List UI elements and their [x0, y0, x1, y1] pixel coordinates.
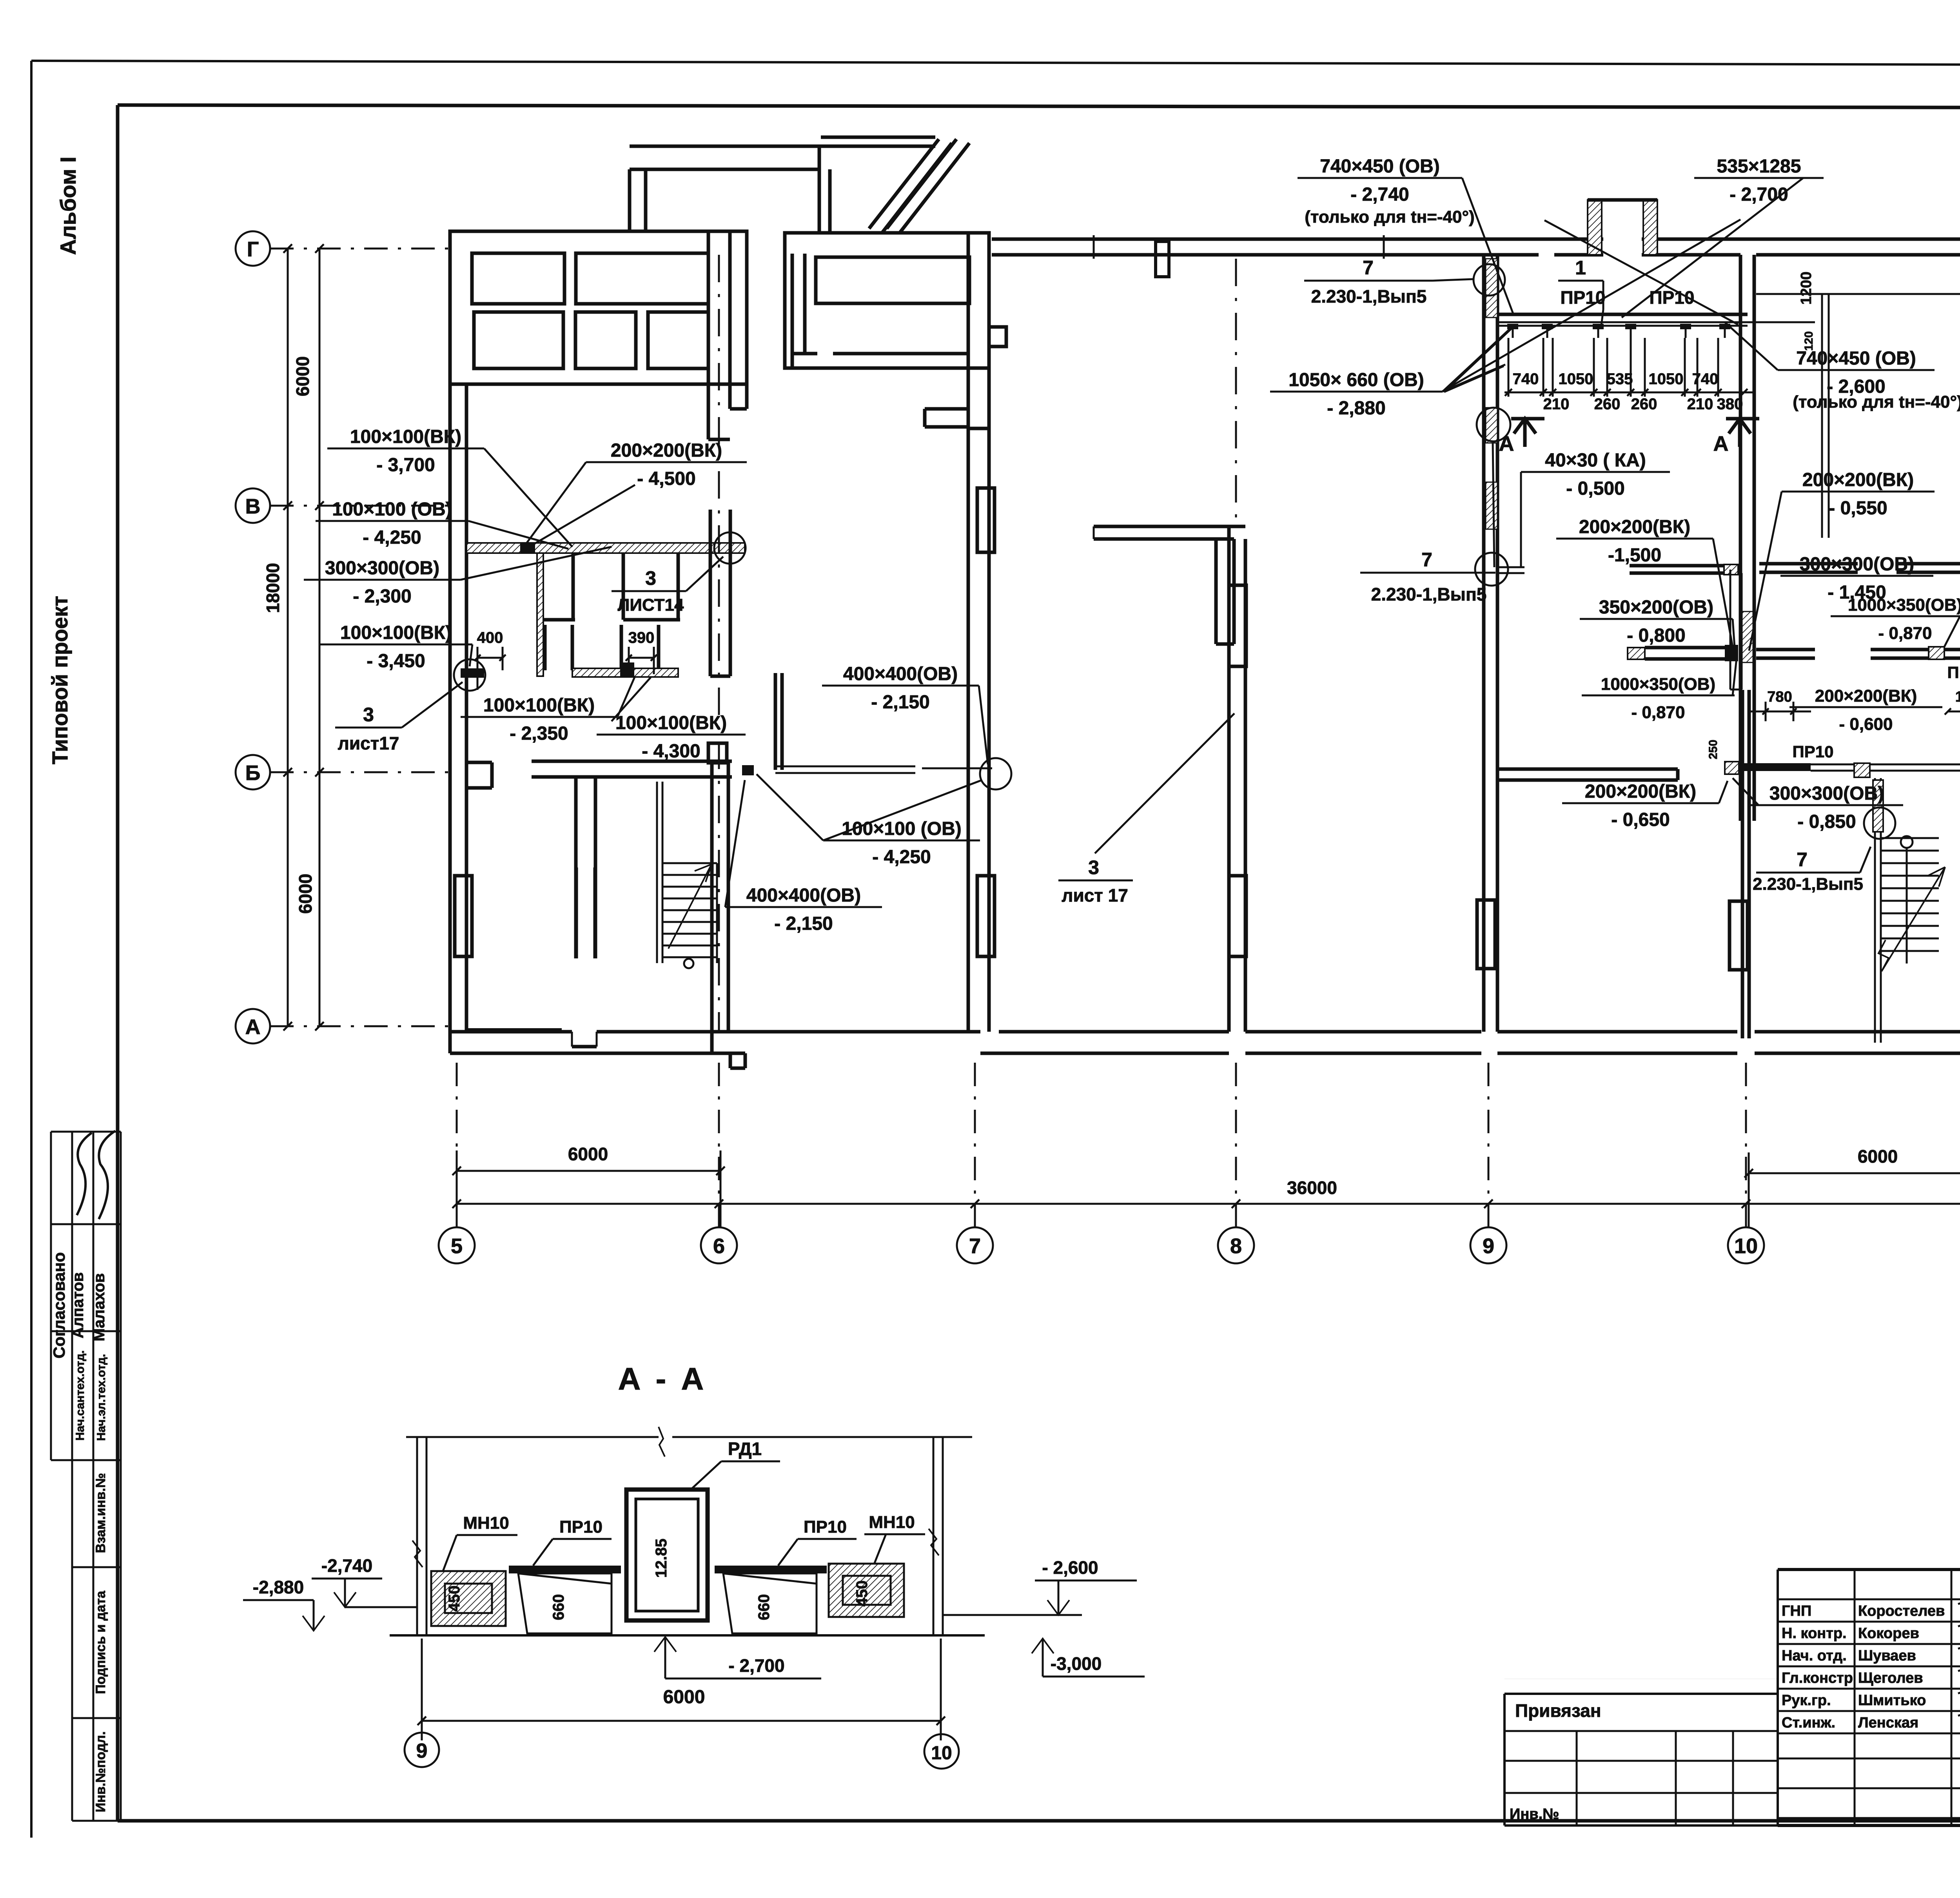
MN10 left box — [431, 1571, 506, 1626]
sheet frame — [31, 61, 1960, 66]
svg-text:лист17: лист17 — [338, 733, 399, 753]
section floor line — [390, 1634, 985, 1637]
RD1 box — [626, 1490, 708, 1620]
section axis circles — [405, 1733, 439, 1767]
svg-text:740: 740 — [1513, 370, 1539, 388]
svg-text:- 2,300: - 2,300 — [353, 586, 411, 607]
svg-text:200×200(ВК): 200×200(ВК) — [1802, 470, 1914, 490]
svg-text:1: 1 — [1575, 257, 1586, 279]
right chamber extension — [1821, 294, 1823, 538]
svg-text:200×200(ВК): 200×200(ВК) — [1579, 517, 1690, 537]
svg-text:- 3,700: - 3,700 — [376, 455, 435, 475]
svg-text:400: 400 — [477, 629, 503, 646]
svg-text:210: 210 — [1687, 396, 1713, 413]
svg-text:300×300(ОВ): 300×300(ОВ) — [325, 558, 439, 579]
svg-text:Шмитько: Шмитько — [1858, 1692, 1926, 1709]
dim 390 — [629, 657, 654, 659]
svg-text:300×300(ОВ): 300×300(ОВ) — [1769, 783, 1884, 804]
duct/chimney above block — [628, 169, 632, 231]
axis8 wall lower — [1227, 526, 1231, 1032]
svg-text:100×100(ВК): 100×100(ВК) — [483, 695, 595, 716]
svg-text:300×300(ОВ): 300×300(ОВ) — [1800, 554, 1914, 575]
svg-text:Б: Б — [245, 761, 261, 785]
svg-text:(только для tн=-40°): (только для tн=-40°) — [1305, 207, 1475, 227]
svg-text:1050: 1050 — [1559, 370, 1593, 388]
svg-text:2.230-1,Вып5: 2.230-1,Вып5 — [1311, 286, 1427, 307]
svg-text:Согласовано: Согласовано — [50, 1252, 68, 1358]
svg-text:200×200(ВК): 200×200(ВК) — [1815, 686, 1917, 706]
top wall right part — [992, 238, 1960, 241]
svg-text:ПР10: ПР10 — [1793, 742, 1834, 761]
svg-text:Ст.инж.: Ст.инж. — [1782, 1715, 1835, 1731]
hatched wall below B axis (left section) — [466, 543, 745, 553]
svg-text:А: А — [245, 1015, 261, 1039]
svg-text:535×1285: 535×1285 — [1717, 156, 1801, 177]
svg-text:6000: 6000 — [292, 356, 313, 396]
svg-text:- 4,300: - 4,300 — [642, 741, 700, 762]
approval stamp table — [51, 1131, 121, 1133]
vent chimney on top wall — [1603, 237, 1642, 257]
bottom right stairs — [1874, 778, 1876, 1043]
window on axis10 wall — [1730, 901, 1748, 970]
leader circles on axis9 wall — [1474, 264, 1505, 296]
svg-text:200×200(ВК): 200×200(ВК) — [611, 440, 722, 461]
svg-text:260: 260 — [1594, 396, 1621, 413]
svg-text:8: 8 — [1230, 1234, 1242, 1258]
axis10 wall lower part — [1741, 690, 1744, 1038]
svg-text:740×450 (ОВ): 740×450 (ОВ) — [1320, 156, 1440, 177]
svg-text:10: 10 — [931, 1743, 952, 1764]
vent chamber walls (axis 9) — [1482, 255, 1486, 1032]
svg-text:6000: 6000 — [568, 1144, 608, 1164]
exterior bottom wall (axis A) — [450, 1030, 572, 1034]
svg-text:6000: 6000 — [295, 874, 316, 914]
svg-text:10: 10 — [1734, 1234, 1758, 1258]
svg-text:6000: 6000 — [663, 1687, 705, 1707]
exterior wall left (axis 5) — [448, 231, 452, 1053]
svg-text:- 2,700: - 2,700 — [728, 1655, 784, 1676]
svg-text:Шуваев: Шуваев — [1858, 1648, 1916, 1664]
partition wall down from Б wall — [575, 867, 578, 958]
block cells row 2 — [474, 312, 563, 368]
svg-text:Кокорев: Кокорев — [1858, 1625, 1919, 1642]
L wall right of stair room — [774, 673, 777, 770]
svg-text:3: 3 — [645, 567, 656, 589]
svg-text:390: 390 — [628, 629, 655, 646]
svg-text:1200: 1200 — [1798, 272, 1815, 305]
svg-text:3: 3 — [1088, 856, 1099, 878]
svg-text:9: 9 — [1483, 1234, 1494, 1258]
svg-text:Привязан: Привязан — [1515, 1700, 1601, 1721]
svg-text:- 3,450: - 3,450 — [367, 651, 425, 671]
svg-text:260: 260 — [1631, 396, 1657, 413]
dim 400 — [477, 657, 503, 659]
svg-text:ПР10: ПР10 — [1561, 287, 1606, 308]
svg-text:1000×350(ОВ): 1000×350(ОВ) — [1848, 595, 1960, 615]
svg-text:7: 7 — [1797, 849, 1808, 871]
svg-text:Рук.гр.: Рук.гр. — [1782, 1692, 1831, 1709]
inner drawing frame — [118, 105, 1960, 108]
svg-text:В: В — [245, 495, 261, 518]
window on axis9 wall — [1477, 900, 1495, 969]
axis letter circles — [236, 231, 270, 266]
svg-text:Гл.констр: Гл.констр — [1782, 1670, 1853, 1686]
wall y1660 with PR10 lintels — [1628, 648, 1645, 659]
svg-text:- 4,250: - 4,250 — [872, 847, 931, 867]
svg-text:450: 450 — [446, 1586, 463, 1612]
svg-text:- 0,600: - 0,600 — [1839, 715, 1893, 734]
hole mark — [520, 543, 535, 553]
svg-text:100×100(ВК): 100×100(ВК) — [350, 426, 461, 447]
second block right wall going down — [967, 233, 970, 428]
svg-text:Г: Г — [247, 238, 259, 261]
section top line — [406, 1436, 659, 1438]
svg-text:ГНП: ГНП — [1782, 1603, 1811, 1619]
svg-text:Инв.№: Инв.№ — [1510, 1806, 1559, 1822]
axis10 wall — [1739, 255, 1742, 821]
svg-text:Нач. отд.: Нач. отд. — [1782, 1648, 1847, 1664]
svg-text:780: 780 — [1767, 689, 1792, 705]
second top block — [785, 233, 989, 368]
privyazan box — [1504, 1693, 1778, 1695]
svg-text:5: 5 — [451, 1234, 463, 1258]
vertical stub axis10 region — [1730, 570, 1731, 690]
top-left room block — [450, 231, 747, 384]
svg-text:- 2,150: - 2,150 — [774, 913, 833, 934]
svg-text:Н. контр.: Н. контр. — [1782, 1625, 1847, 1642]
svg-text:- 2,350: - 2,350 — [510, 723, 568, 744]
axis8 dash line above wall — [1235, 259, 1237, 526]
stair room left section — [656, 782, 658, 963]
svg-text:100×100(ВК): 100×100(ВК) — [615, 713, 727, 733]
svg-text:450: 450 — [853, 1580, 871, 1607]
svg-text:ПР10: ПР10 — [1947, 663, 1960, 682]
diagonal flue break — [869, 139, 939, 229]
svg-text:3: 3 — [363, 704, 374, 726]
svg-text:- 0,650: - 0,650 — [1611, 809, 1670, 830]
svg-text:9: 9 — [416, 1740, 428, 1762]
svg-text:Нач.эл.тех.отд.: Нач.эл.тех.отд. — [95, 1354, 108, 1441]
svg-text:12.85: 12.85 — [653, 1539, 670, 1578]
svg-text:Альбом I: Альбом I — [56, 156, 80, 255]
svg-text:535: 535 — [1607, 370, 1633, 388]
svg-text:100×100(ВК): 100×100(ВК) — [340, 622, 452, 643]
T wall right of block — [707, 231, 710, 439]
small rooms below — [537, 553, 543, 676]
long leader diagonals across chamber — [1443, 220, 1740, 391]
chamber dim verticals — [1508, 338, 1510, 397]
svg-text:Алпатов: Алпатов — [69, 1272, 87, 1339]
axis6 line inside plan — [718, 255, 720, 1032]
svg-text:7: 7 — [1421, 549, 1432, 571]
svg-text:40×30 ( КА): 40×30 ( КА) — [1545, 450, 1646, 471]
svg-text:ПР10: ПР10 — [559, 1517, 603, 1537]
section right wall — [933, 1437, 935, 1635]
svg-text:Инв.№подл.: Инв.№подл. — [93, 1731, 108, 1813]
svg-text:-2,880: -2,880 — [253, 1577, 304, 1597]
svg-text:- 2,150: - 2,150 — [871, 692, 929, 713]
section left wall — [416, 1437, 418, 1635]
stair circle post — [684, 959, 693, 968]
svg-text:2.230-1,Вып5: 2.230-1,Вып5 — [1753, 875, 1863, 894]
svg-text:660: 660 — [755, 1594, 773, 1620]
svg-text:- 0,800: - 0,800 — [1627, 625, 1685, 646]
stair post circle — [1901, 836, 1913, 848]
svg-text:- 0,500: - 0,500 — [1566, 478, 1624, 499]
lintel section marks — [1512, 326, 1514, 338]
svg-text:18000: 18000 — [263, 563, 283, 613]
dim 780 and 1560 — [1765, 702, 1767, 721]
svg-text:660: 660 — [550, 1594, 567, 1620]
svg-text:(только для tн=-40°): (только для tн=-40°) — [1793, 392, 1960, 412]
svg-text:ЛИСТ14: ЛИСТ14 — [618, 595, 684, 615]
svg-text:- 4,500: - 4,500 — [637, 468, 695, 489]
svg-text:350×200(ОВ): 350×200(ОВ) — [1599, 597, 1713, 618]
svg-text:36000: 36000 — [1287, 1178, 1337, 1198]
signatures — [77, 1133, 92, 1215]
chamber dim line — [1504, 392, 1755, 394]
svg-text:1000×350(ОВ): 1000×350(ОВ) — [1601, 675, 1715, 694]
svg-text:- 2,740: - 2,740 — [1350, 184, 1409, 205]
svg-text:1560: 1560 — [1955, 689, 1960, 705]
svg-text:100×100 (ОВ): 100×100 (ОВ) — [842, 818, 962, 839]
svg-text:Взам.инв.№: Взам.инв.№ — [93, 1473, 108, 1553]
top wall joint ticks — [1093, 235, 1095, 259]
window bars on walls — [1229, 585, 1246, 666]
svg-text:- 0,870: - 0,870 — [1632, 703, 1685, 722]
svg-text:200×200(ВК): 200×200(ВК) — [1585, 781, 1696, 802]
svg-text:1050: 1050 — [1649, 370, 1684, 388]
svg-text:400×400(ОВ): 400×400(ОВ) — [746, 885, 861, 906]
svg-text:- 0,550: - 0,550 — [1829, 498, 1887, 519]
Б-axis wall with door notch — [466, 761, 492, 764]
svg-text:-1,500: -1,500 — [1608, 545, 1661, 566]
lintel line in vent chamber — [1497, 313, 1748, 316]
title block name table — [1777, 1570, 1779, 1825]
svg-text:МН10: МН10 — [869, 1513, 915, 1532]
svg-text:7: 7 — [1363, 257, 1374, 279]
svg-text:А: А — [1713, 432, 1729, 455]
svg-text:400×400(ОВ): 400×400(ОВ) — [843, 664, 958, 684]
svg-text:-2,740: -2,740 — [321, 1555, 372, 1576]
svg-text:100×100 (ОВ): 100×100 (ОВ) — [332, 499, 452, 520]
svg-text:Нач.сантех.отд.: Нач.сантех.отд. — [74, 1350, 87, 1441]
svg-text:6000: 6000 — [1858, 1146, 1898, 1167]
svg-text:740×450 (ОВ): 740×450 (ОВ) — [1796, 348, 1916, 369]
svg-text:- 0,870: - 0,870 — [1878, 624, 1932, 643]
middle section interior — [1094, 525, 1245, 528]
svg-text:РД1: РД1 — [728, 1439, 762, 1459]
svg-text:Типовой проект: Типовой проект — [47, 596, 72, 764]
svg-text:ПР10: ПР10 — [804, 1517, 847, 1537]
axis7 wall — [967, 428, 970, 1032]
svg-text:250: 250 — [1707, 740, 1720, 759]
svg-text:МН10: МН10 — [463, 1513, 509, 1533]
right section interior walls y1450 — [1498, 566, 1524, 568]
svg-text:- 0,850: - 0,850 — [1797, 811, 1856, 832]
svg-text:- 2,600: - 2,600 — [1042, 1557, 1098, 1578]
right wall of stair room — [709, 510, 712, 676]
interior wall y1956 with PR10 lintel — [1725, 762, 1739, 774]
MN10 right box — [829, 1564, 904, 1617]
svg-text:210: 210 — [1543, 396, 1570, 413]
svg-text:- 4,250: - 4,250 — [363, 527, 421, 548]
svg-text:- 2,700: - 2,700 — [1730, 184, 1788, 205]
svg-text:6: 6 — [713, 1234, 725, 1258]
svg-text:-3,000: -3,000 — [1051, 1653, 1102, 1674]
block cells row 1 — [472, 253, 564, 304]
svg-text:Подпись и дата: Подпись и дата — [93, 1590, 108, 1694]
svg-text:1050× 660 (ОВ): 1050× 660 (ОВ) — [1289, 370, 1424, 390]
svg-text:2.230-1,Вып5: 2.230-1,Вып5 — [1371, 584, 1487, 604]
svg-text:- 2,880: - 2,880 — [1327, 398, 1385, 419]
left vertical dim lines — [287, 249, 289, 1026]
svg-text:380: 380 — [1717, 396, 1743, 413]
svg-text:лист 17: лист 17 — [1062, 885, 1128, 905]
svg-text:Ленская: Ленская — [1858, 1715, 1918, 1731]
svg-text:740: 740 — [1692, 370, 1719, 388]
svg-text:Коростелев: Коростелев — [1858, 1603, 1945, 1619]
svg-text:Малахов: Малахов — [91, 1273, 108, 1341]
svg-text:Щеголев: Щеголев — [1858, 1670, 1923, 1686]
svg-text:7: 7 — [969, 1234, 981, 1258]
bottom axis circles 5-11 — [439, 1227, 475, 1263]
beam 200x200 below axis9 — [1498, 768, 1678, 771]
stub on axis7 wall — [989, 327, 1006, 347]
bottom dimension lines — [457, 1170, 720, 1172]
svg-text:А - А: А - А — [618, 1361, 707, 1396]
